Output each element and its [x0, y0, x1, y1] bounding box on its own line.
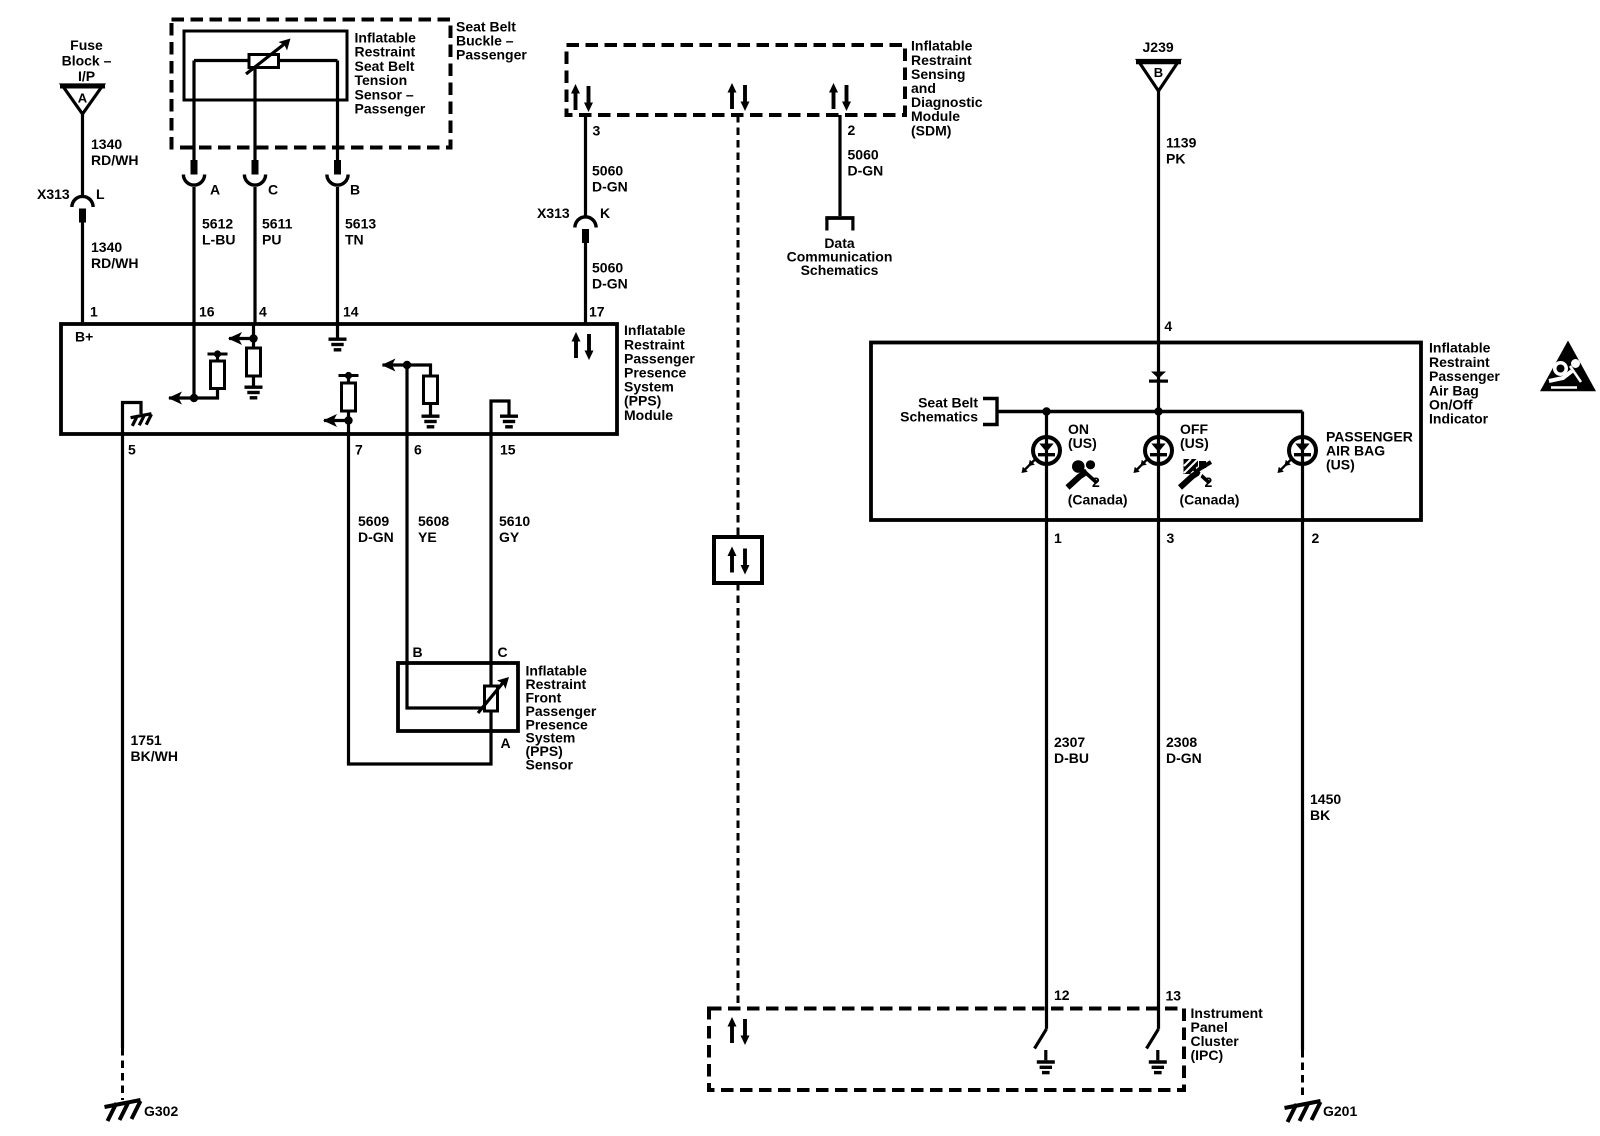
svg-text:3: 3 — [1167, 530, 1175, 546]
svg-text:12: 12 — [1054, 987, 1070, 1003]
svg-text:(US): (US) — [1180, 435, 1209, 451]
svg-text:5608: 5608 — [418, 513, 449, 529]
svg-text:5613: 5613 — [345, 216, 376, 232]
svg-text:YE: YE — [418, 529, 437, 545]
svg-text:Sensor: Sensor — [526, 757, 574, 773]
svg-text:(IPC): (IPC) — [1191, 1047, 1224, 1063]
svg-text:A: A — [501, 735, 511, 751]
svg-text:3: 3 — [593, 123, 601, 139]
svg-text:2307: 2307 — [1054, 734, 1085, 750]
svg-text:B: B — [1154, 65, 1163, 80]
svg-text:B: B — [413, 644, 423, 660]
svg-text:6: 6 — [414, 442, 422, 458]
svg-text:17: 17 — [589, 304, 605, 320]
svg-text:BK/WH: BK/WH — [131, 748, 178, 764]
svg-text:(Canada): (Canada) — [1068, 492, 1128, 508]
svg-text:2: 2 — [848, 122, 856, 138]
svg-text:13: 13 — [1166, 988, 1182, 1004]
svg-text:C: C — [498, 644, 508, 660]
svg-text:2308: 2308 — [1166, 734, 1197, 750]
svg-text:5609: 5609 — [358, 513, 389, 529]
svg-text:(US): (US) — [1326, 457, 1355, 473]
svg-text:L: L — [96, 186, 105, 202]
svg-text:2: 2 — [1092, 474, 1100, 490]
svg-text:RD/WH: RD/WH — [91, 255, 138, 271]
svg-text:1: 1 — [1054, 530, 1062, 546]
svg-text:5611: 5611 — [262, 216, 293, 232]
svg-text:4: 4 — [1164, 318, 1172, 334]
svg-text:1450: 1450 — [1310, 791, 1341, 807]
svg-text:C: C — [268, 182, 278, 198]
svg-text:5060: 5060 — [592, 260, 623, 276]
svg-text:5610: 5610 — [499, 513, 530, 529]
svg-text:I/P: I/P — [78, 68, 95, 84]
svg-text:5060: 5060 — [848, 147, 879, 163]
svg-text:TN: TN — [345, 232, 364, 248]
svg-text:(SDM): (SDM) — [911, 122, 951, 138]
svg-text:1340: 1340 — [91, 136, 122, 152]
svg-text:4: 4 — [259, 304, 267, 320]
svg-text:1: 1 — [90, 304, 98, 320]
svg-text:1340: 1340 — [91, 239, 122, 255]
svg-text:PK: PK — [1166, 151, 1185, 167]
svg-text:D-GN: D-GN — [358, 529, 394, 545]
svg-text:7: 7 — [355, 442, 363, 458]
svg-text:G201: G201 — [1323, 1103, 1357, 1119]
svg-text:D-GN: D-GN — [592, 276, 628, 292]
svg-text:BK: BK — [1310, 807, 1330, 823]
svg-text:D-BU: D-BU — [1054, 750, 1089, 766]
svg-text:B+: B+ — [75, 329, 93, 345]
svg-text:1139: 1139 — [1166, 135, 1197, 151]
svg-text:GY: GY — [499, 529, 520, 545]
svg-text:A: A — [210, 182, 220, 198]
svg-text:(Canada): (Canada) — [1180, 492, 1240, 508]
svg-text:Module: Module — [624, 407, 673, 423]
svg-text:2: 2 — [1312, 530, 1320, 546]
svg-text:K: K — [600, 205, 610, 221]
svg-text:14: 14 — [343, 304, 359, 320]
svg-text:D-GN: D-GN — [592, 179, 628, 195]
svg-text:G302: G302 — [144, 1103, 178, 1119]
svg-text:X313: X313 — [537, 205, 570, 221]
svg-text:Block –: Block – — [62, 53, 112, 69]
svg-text:Fuse: Fuse — [70, 37, 103, 53]
svg-text:D-GN: D-GN — [848, 163, 884, 179]
svg-text:1751: 1751 — [131, 732, 162, 748]
svg-text:L-BU: L-BU — [202, 232, 235, 248]
svg-text:15: 15 — [500, 442, 516, 458]
svg-text:X313: X313 — [37, 186, 70, 202]
svg-text:5612: 5612 — [202, 216, 233, 232]
svg-text:PU: PU — [262, 232, 281, 248]
svg-text:Passenger: Passenger — [456, 47, 527, 63]
svg-text:RD/WH: RD/WH — [91, 152, 138, 168]
svg-text:(US): (US) — [1068, 435, 1097, 451]
svg-text:Passenger: Passenger — [355, 101, 426, 117]
svg-text:J239: J239 — [1143, 39, 1174, 55]
svg-text:5: 5 — [128, 442, 136, 458]
svg-text:D-GN: D-GN — [1166, 750, 1202, 766]
svg-text:16: 16 — [199, 304, 215, 320]
svg-text:A: A — [78, 91, 88, 106]
svg-text:5060: 5060 — [592, 163, 623, 179]
svg-text:B: B — [350, 182, 360, 198]
svg-text:Schematics: Schematics — [900, 409, 978, 425]
svg-text:Schematics: Schematics — [801, 262, 879, 278]
svg-text:2: 2 — [1205, 474, 1213, 490]
svg-text:Indicator: Indicator — [1429, 411, 1489, 427]
